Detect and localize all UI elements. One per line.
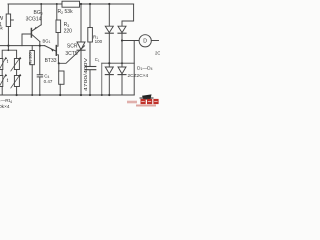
- wire BG1 B1 down: [57, 55, 58, 64]
- svg-text:R3: R3: [64, 22, 70, 28]
- junction D1 / mid bus: [108, 62, 110, 64]
- watermark logo: [127, 94, 159, 106]
- junction pot chain / timing bus: [7, 45, 9, 47]
- wire SCR cathode to rail: [80, 50, 82, 95]
- svg-text:0.47: 0.47: [44, 79, 53, 84]
- resistor R2: [62, 1, 80, 7]
- wire between thermistor rows: [2, 70, 16, 76]
- transistor BG1 bar: [55, 46, 57, 56]
- junction bridge minus / bottom rail: [101, 94, 103, 96]
- junction thermistors / bottom rail: [16, 94, 18, 96]
- diode D3: [108, 63, 110, 67]
- wire motor lead: [122, 40, 139, 42]
- junction R3 / top rail: [56, 3, 58, 5]
- svg-text:4700/400V: 4700/400V: [83, 58, 88, 91]
- thyristor SCR: [77, 42, 85, 50]
- svg-text:D1—D4: D1—D4: [137, 65, 153, 71]
- junction C4 / bottom rail: [39, 94, 41, 96]
- wire bottom rail: [0, 94, 134, 96]
- transistor BG2: [30, 29, 32, 38]
- motor D: [139, 35, 151, 47]
- wire BG2 emitter to rail: [40, 4, 42, 25]
- svg-text:R2 53k: R2 53k: [58, 9, 74, 15]
- wire top rail left segment: [8, 3, 62, 5]
- junction C4 / timing bus: [39, 45, 41, 47]
- svg-text:1: 1: [0, 22, 2, 28]
- junction R4 / bottom rail: [31, 94, 33, 96]
- wire pot to bus: [7, 27, 9, 51]
- emitter arrow BG1: [50, 48, 53, 51]
- svg-text:1—Rt4: 1—Rt4: [0, 98, 12, 104]
- svg-text:BG2: BG2: [34, 10, 43, 16]
- thermistor Rt2: [14, 59, 19, 70]
- emitter arrow BG2: [33, 27, 36, 30]
- wire top rail right segment: [80, 3, 134, 5]
- wire SCR gate: [59, 46, 85, 64]
- thermistor Rt4: [14, 76, 19, 87]
- junction R6 / bottom rail: [59, 94, 61, 96]
- thyristor SCR anode wire: [80, 4, 82, 42]
- svg-text:3CT5: 3CT5: [65, 51, 77, 57]
- thermistor Rt1 (cut at edge): [0, 59, 3, 70]
- wire BG2 collector to bus: [39, 42, 41, 46]
- junction SCR anode / top rail: [80, 3, 82, 5]
- svg-text:0k×4: 0k×4: [0, 104, 10, 110]
- svg-text:SCR: SCR: [67, 43, 78, 49]
- svg-text:R4 100: R4 100: [28, 51, 34, 64]
- junction C1 / bottom rail: [89, 94, 91, 96]
- wire right edge riser: [133, 41, 135, 96]
- resistor R3: [56, 4, 58, 20]
- junction D3 / bottom rail: [108, 94, 110, 96]
- junction D2 / mid bus: [121, 62, 123, 64]
- svg-text:3CG14: 3CG14: [26, 17, 42, 23]
- wire left edge drop: [7, 4, 9, 14]
- svg-text:2O: 2O: [155, 51, 160, 56]
- junction D2 / motor lead: [121, 39, 123, 41]
- junction D1 / top rail: [108, 3, 110, 5]
- transistor Q BG2 base wire: [22, 34, 31, 46]
- junction thermistor split: [7, 49, 9, 51]
- junction B1 / gate / R6: [58, 62, 60, 64]
- svg-text:C1: C1: [95, 57, 100, 63]
- junction SCR cathode / bottom rail: [80, 94, 82, 96]
- arrowheads on thermistor diagonals: [4, 57, 21, 77]
- wire thermistor split: [2, 50, 16, 58]
- diode D4: [121, 63, 123, 67]
- wire bridge mid bus: [102, 62, 134, 64]
- resistor R1: [89, 4, 91, 28]
- svg-text:D: D: [143, 39, 147, 45]
- svg-text:2CZ2C×4: 2CZ2C×4: [128, 73, 149, 79]
- thermistor Rt3 (cut at edge): [0, 76, 3, 87]
- svg-text:220: 220: [64, 29, 73, 35]
- wire BG1 B2 to R3: [57, 33, 58, 47]
- resistor R6: [58, 63, 60, 71]
- capacitor C1: [89, 42, 91, 66]
- junction BG2 emitter / top rail: [40, 3, 42, 5]
- diode D2: [118, 26, 126, 32]
- junction R1 / top rail: [89, 3, 91, 5]
- wire bridge minus to rail: [101, 63, 103, 95]
- svg-text:100: 100: [95, 39, 103, 44]
- wire top right corner: [122, 4, 134, 26]
- svg-text:BG1: BG1: [43, 39, 51, 45]
- diode D1: [105, 26, 113, 32]
- transistor U1 unijunction BG1 emitter: [45, 46, 56, 51]
- wire thermistors to rail: [2, 87, 16, 96]
- capacitor C4: [39, 46, 41, 75]
- svg-text:BT33: BT33: [45, 58, 57, 64]
- potentiometer W (cut at edge): [6, 14, 10, 27]
- wire timing bus: [0, 45, 45, 47]
- wire bridge left drop: [108, 4, 110, 26]
- resistor R4: [31, 46, 33, 51]
